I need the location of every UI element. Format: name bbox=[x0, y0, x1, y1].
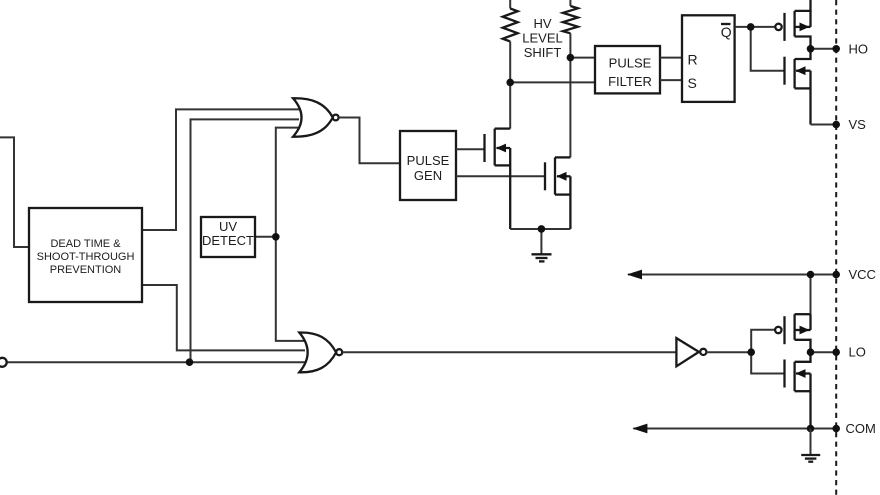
inverter U4 bbox=[676, 338, 706, 366]
wire LO pin bbox=[811, 351, 837, 353]
wire to LO NMOS gate bbox=[751, 352, 784, 373]
COM rail bbox=[632, 424, 840, 434]
input terminal LIN bbox=[0, 358, 7, 367]
wire HIN input to dead-time box bbox=[0, 137, 29, 247]
wire pulse-filter to latch R bbox=[660, 57, 682, 59]
pulse-filter block bbox=[595, 46, 660, 93]
RS latch U2 bbox=[682, 15, 735, 102]
svg-text:LO: LO bbox=[849, 345, 866, 360]
svg-text:Q: Q bbox=[721, 24, 732, 40]
wire dead-time output B to NOR2 input 2 bbox=[142, 285, 305, 350]
svg-text:HO: HO bbox=[849, 42, 869, 57]
svg-text:PULSE: PULSE bbox=[609, 56, 652, 71]
svg-text:SHIFT: SHIFT bbox=[524, 45, 562, 60]
wire NOR1 output to pulse-gen bbox=[339, 118, 400, 164]
ground (level shift) bbox=[532, 229, 552, 261]
svg-text:GEN: GEN bbox=[414, 168, 442, 183]
wire pulse-gen to Q2 gate bbox=[456, 175, 545, 177]
wire UV detect output bbox=[255, 236, 276, 238]
svg-text:DEAD TIME &: DEAD TIME & bbox=[50, 238, 121, 250]
svg-text:SHOOT-THROUGH: SHOOT-THROUGH bbox=[37, 251, 135, 263]
svg-text:LEVEL: LEVEL bbox=[522, 30, 562, 45]
pulse-gen block bbox=[400, 131, 456, 200]
transistor Q2 (level shift right) bbox=[545, 157, 570, 229]
svg-text:PULSE: PULSE bbox=[407, 153, 450, 168]
VCC rail bbox=[627, 270, 840, 315]
wire source ground rail bbox=[510, 228, 570, 230]
transistor Q1 (level shift left) bbox=[485, 129, 511, 229]
node dots high side bbox=[747, 23, 755, 31]
wire VS pin bbox=[811, 124, 837, 126]
resistor R2 bbox=[563, 0, 578, 157]
ground (COM) bbox=[801, 429, 820, 462]
wire HO pin bbox=[811, 48, 837, 50]
wire dead-time output A to NOR1 input 1 bbox=[142, 109, 299, 230]
node dots left section bbox=[272, 233, 280, 241]
wire LIN branch to NOR1 input 2 bbox=[191, 119, 300, 362]
svg-text:PREVENTION: PREVENTION bbox=[50, 264, 122, 276]
svg-text:R: R bbox=[688, 52, 698, 68]
svg-text:HV: HV bbox=[533, 16, 551, 31]
node dots level shift bbox=[506, 79, 514, 87]
NOR gate U3 (low side) bbox=[299, 332, 342, 372]
dead-time block bbox=[29, 208, 142, 302]
svg-text:S: S bbox=[688, 75, 697, 91]
transistor Q3 (HO PMOS) bbox=[775, 0, 810, 49]
NOR gate U1 (high side) bbox=[293, 98, 339, 136]
svg-text:COM: COM bbox=[846, 421, 876, 436]
uv-detect block bbox=[201, 217, 255, 257]
wire pulse-filter to latch S bbox=[660, 79, 682, 81]
svg-text:FILTER: FILTER bbox=[608, 74, 652, 89]
transistor Q4 (HO NMOS) bbox=[785, 49, 811, 125]
svg-text:UV: UV bbox=[219, 219, 237, 234]
wire latch Q to output gates bbox=[735, 27, 785, 71]
transistor Q5 (LO PMOS) bbox=[775, 314, 810, 352]
wire inverter output bbox=[706, 351, 751, 353]
wire R1 node to pulse-filter S input bbox=[510, 81, 595, 83]
wire LIN input line bbox=[7, 361, 307, 363]
wire R2 node to pulse-filter R input bbox=[570, 57, 595, 59]
wire UV node to NOR1 input 3 and NOR2 input 1 bbox=[276, 128, 306, 341]
svg-text:DETECT: DETECT bbox=[202, 233, 254, 248]
wire pulse-gen to Q1 gate bbox=[456, 148, 485, 150]
wire to LO PMOS gate bbox=[751, 330, 775, 352]
label HV LEVEL SHIFT bbox=[522, 16, 562, 60]
svg-text:VCC: VCC bbox=[849, 267, 876, 282]
svg-text:VS: VS bbox=[849, 117, 867, 132]
resistor R1 bbox=[503, 0, 518, 129]
wire NOR2 output to inverter bbox=[342, 351, 676, 353]
transistor Q6 (LO NMOS) bbox=[785, 352, 811, 428]
chip boundary dashed line bbox=[835, 0, 837, 495]
